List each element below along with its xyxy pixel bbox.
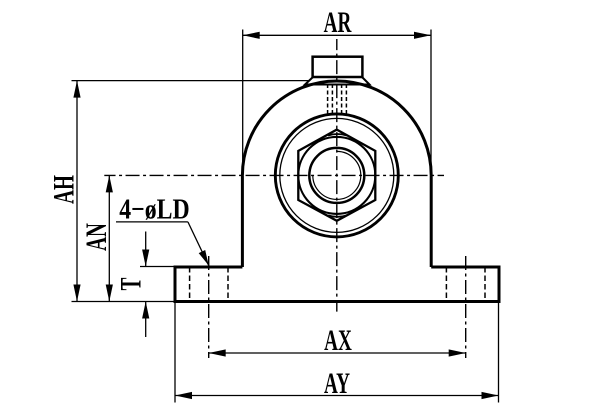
AY extension line left <box>174 303 176 403</box>
AY arrow left <box>175 392 192 399</box>
T lower dimension line <box>145 302 147 338</box>
AX arrow left <box>209 349 226 356</box>
T arrow lower (pointing up) <box>142 302 149 319</box>
AX dimension line <box>209 352 466 354</box>
AR arrow right <box>414 32 431 39</box>
svg-text:AX: AX <box>324 325 352 357</box>
base plate outline <box>175 267 499 302</box>
AY arrow right <box>482 392 499 399</box>
grease hole hidden line 3 <box>341 84 343 114</box>
left wall of housing body <box>241 175 244 267</box>
svg-text:4−øLD: 4−øLD <box>119 192 189 225</box>
grease fitting flare <box>305 77 370 85</box>
AN dimension line <box>108 175 110 301</box>
svg-text:AN: AN <box>81 223 113 251</box>
locking collar hexagon <box>298 130 375 221</box>
grease fitting body <box>313 57 363 77</box>
AR dimension line <box>243 34 431 36</box>
horizontal centerline <box>104 174 444 176</box>
grease hole hidden line 4 <box>345 84 347 114</box>
hexagon bottom chamfer cap arc <box>328 215 347 216</box>
svg-text:AR: AR <box>324 7 352 39</box>
grease hole hidden line 2 <box>331 84 333 114</box>
AN arrow top <box>106 175 113 192</box>
AH dimension line <box>76 81 78 302</box>
left bolt hole centerline <box>208 256 210 358</box>
AR arrow left <box>243 32 260 39</box>
hexagon chamfer circle <box>298 137 375 214</box>
AR extension line right <box>430 30 432 177</box>
svg-text:T: T <box>115 277 147 290</box>
left bolt hole hidden line right <box>227 267 229 302</box>
grease hole hidden line 1 <box>327 84 329 114</box>
right bolt hole hidden line right <box>484 267 486 302</box>
svg-text:AH: AH <box>48 175 80 204</box>
right bolt hole hidden line left <box>445 267 447 302</box>
AH arrow bottom <box>73 285 80 302</box>
right bolt hole centerline <box>465 256 467 358</box>
T top extension line <box>140 266 175 268</box>
hexagon top chamfer cap arc <box>328 134 347 135</box>
4-ØLD leader arrowhead <box>199 250 209 266</box>
AH arrow top <box>73 81 80 98</box>
left bolt hole hidden line left <box>189 267 191 302</box>
bearing outer circle <box>275 114 398 237</box>
vertical centerline <box>336 39 338 312</box>
AY extension line right <box>498 303 500 403</box>
svg-text:AY: AY <box>324 368 350 400</box>
T upper dimension line <box>145 232 147 267</box>
AY dimension line <box>175 395 499 397</box>
bearing outer ring inner circle <box>280 118 394 232</box>
AH bottom extension line <box>72 301 176 303</box>
bore circle <box>309 148 364 203</box>
4-ØLD underline <box>116 221 188 223</box>
AN arrow bottom <box>106 285 113 302</box>
thread arc (3/4 circle) <box>313 151 361 199</box>
right wall of housing body <box>430 175 433 267</box>
dome arc (housing top) <box>242 81 431 175</box>
AR extension line left <box>242 30 244 177</box>
AX arrow right <box>449 349 466 356</box>
T arrow upper (pointing down) <box>142 250 149 267</box>
AH top extension line <box>72 80 310 82</box>
4-ØLD leader line <box>188 222 209 266</box>
